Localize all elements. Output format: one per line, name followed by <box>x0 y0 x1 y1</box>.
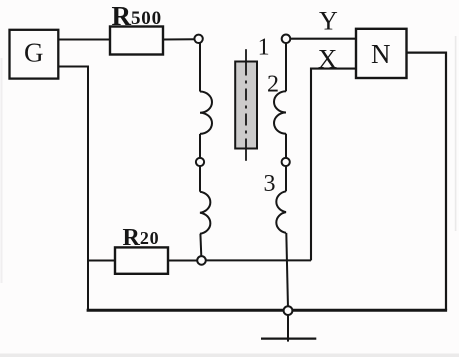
svg-text:3: 3 <box>264 171 276 197</box>
node J5 (right column middle) <box>282 158 290 166</box>
svg-text:G: G <box>24 37 44 67</box>
wire J5 down to coil 3 <box>285 166 287 191</box>
core axis line bottom stub <box>245 147 247 161</box>
receiver N box <box>356 29 407 78</box>
bottom bus wire <box>87 309 448 312</box>
wire left bus to R20 <box>88 260 115 262</box>
wire Y from J4 to N <box>290 38 356 40</box>
wire coil 3 down to ground node <box>286 233 288 308</box>
wire X riser up to N <box>311 69 356 261</box>
generator G box <box>10 30 59 79</box>
wire R500 to node J1 <box>163 38 195 40</box>
wire coil to node J3 <box>199 234 202 257</box>
scan artifact bottom edge <box>0 354 459 357</box>
ground stem <box>287 315 289 342</box>
core axis line top stub <box>245 49 247 63</box>
wire R20 to node J3 <box>168 260 197 262</box>
node J3 (R20 output node) <box>197 256 206 265</box>
inductor coil left-top (bulges right) <box>200 92 212 134</box>
wire J2 down to coil L1b <box>199 166 201 192</box>
svg-text:2: 2 <box>267 72 279 98</box>
node J1 (top left terminal) <box>194 35 202 43</box>
inductor coil 3 (bulges left) <box>276 191 286 233</box>
resistor R20 <box>115 247 168 273</box>
svg-text:R500: R500 <box>112 1 162 31</box>
node J4 (top right terminal) <box>282 35 291 44</box>
wire G lower output to left bus <box>59 67 88 311</box>
svg-text:1: 1 <box>258 35 270 61</box>
core axis dash-dot line <box>245 64 247 147</box>
svg-text:R20: R20 <box>123 225 160 251</box>
wire node J3 to X riser <box>206 259 311 261</box>
wire coil 2 to node J5 <box>285 134 287 158</box>
node J2 (left column middle) <box>196 158 204 166</box>
scan artifact right edge <box>455 36 457 231</box>
ground bar <box>261 338 316 340</box>
svg-text:N: N <box>371 39 391 69</box>
core bar 1 (ferrite rod) <box>235 62 257 149</box>
wire G to R500 <box>59 39 111 41</box>
wire N right to right bus <box>407 53 447 311</box>
inductor coil 2 (bulges left) <box>274 91 286 133</box>
svg-text:Y: Y <box>319 6 338 35</box>
wire J4 down to coil 2 <box>285 43 287 91</box>
scan artifact left edge <box>1 58 3 283</box>
wire J1 down to coil L1a <box>199 43 201 91</box>
svg-text:X: X <box>318 44 338 74</box>
ground node <box>284 306 293 315</box>
wire coil to node J2 <box>199 134 201 158</box>
inductor coil left-bottom (bulges right) <box>200 192 210 234</box>
resistor R500 <box>110 27 163 55</box>
